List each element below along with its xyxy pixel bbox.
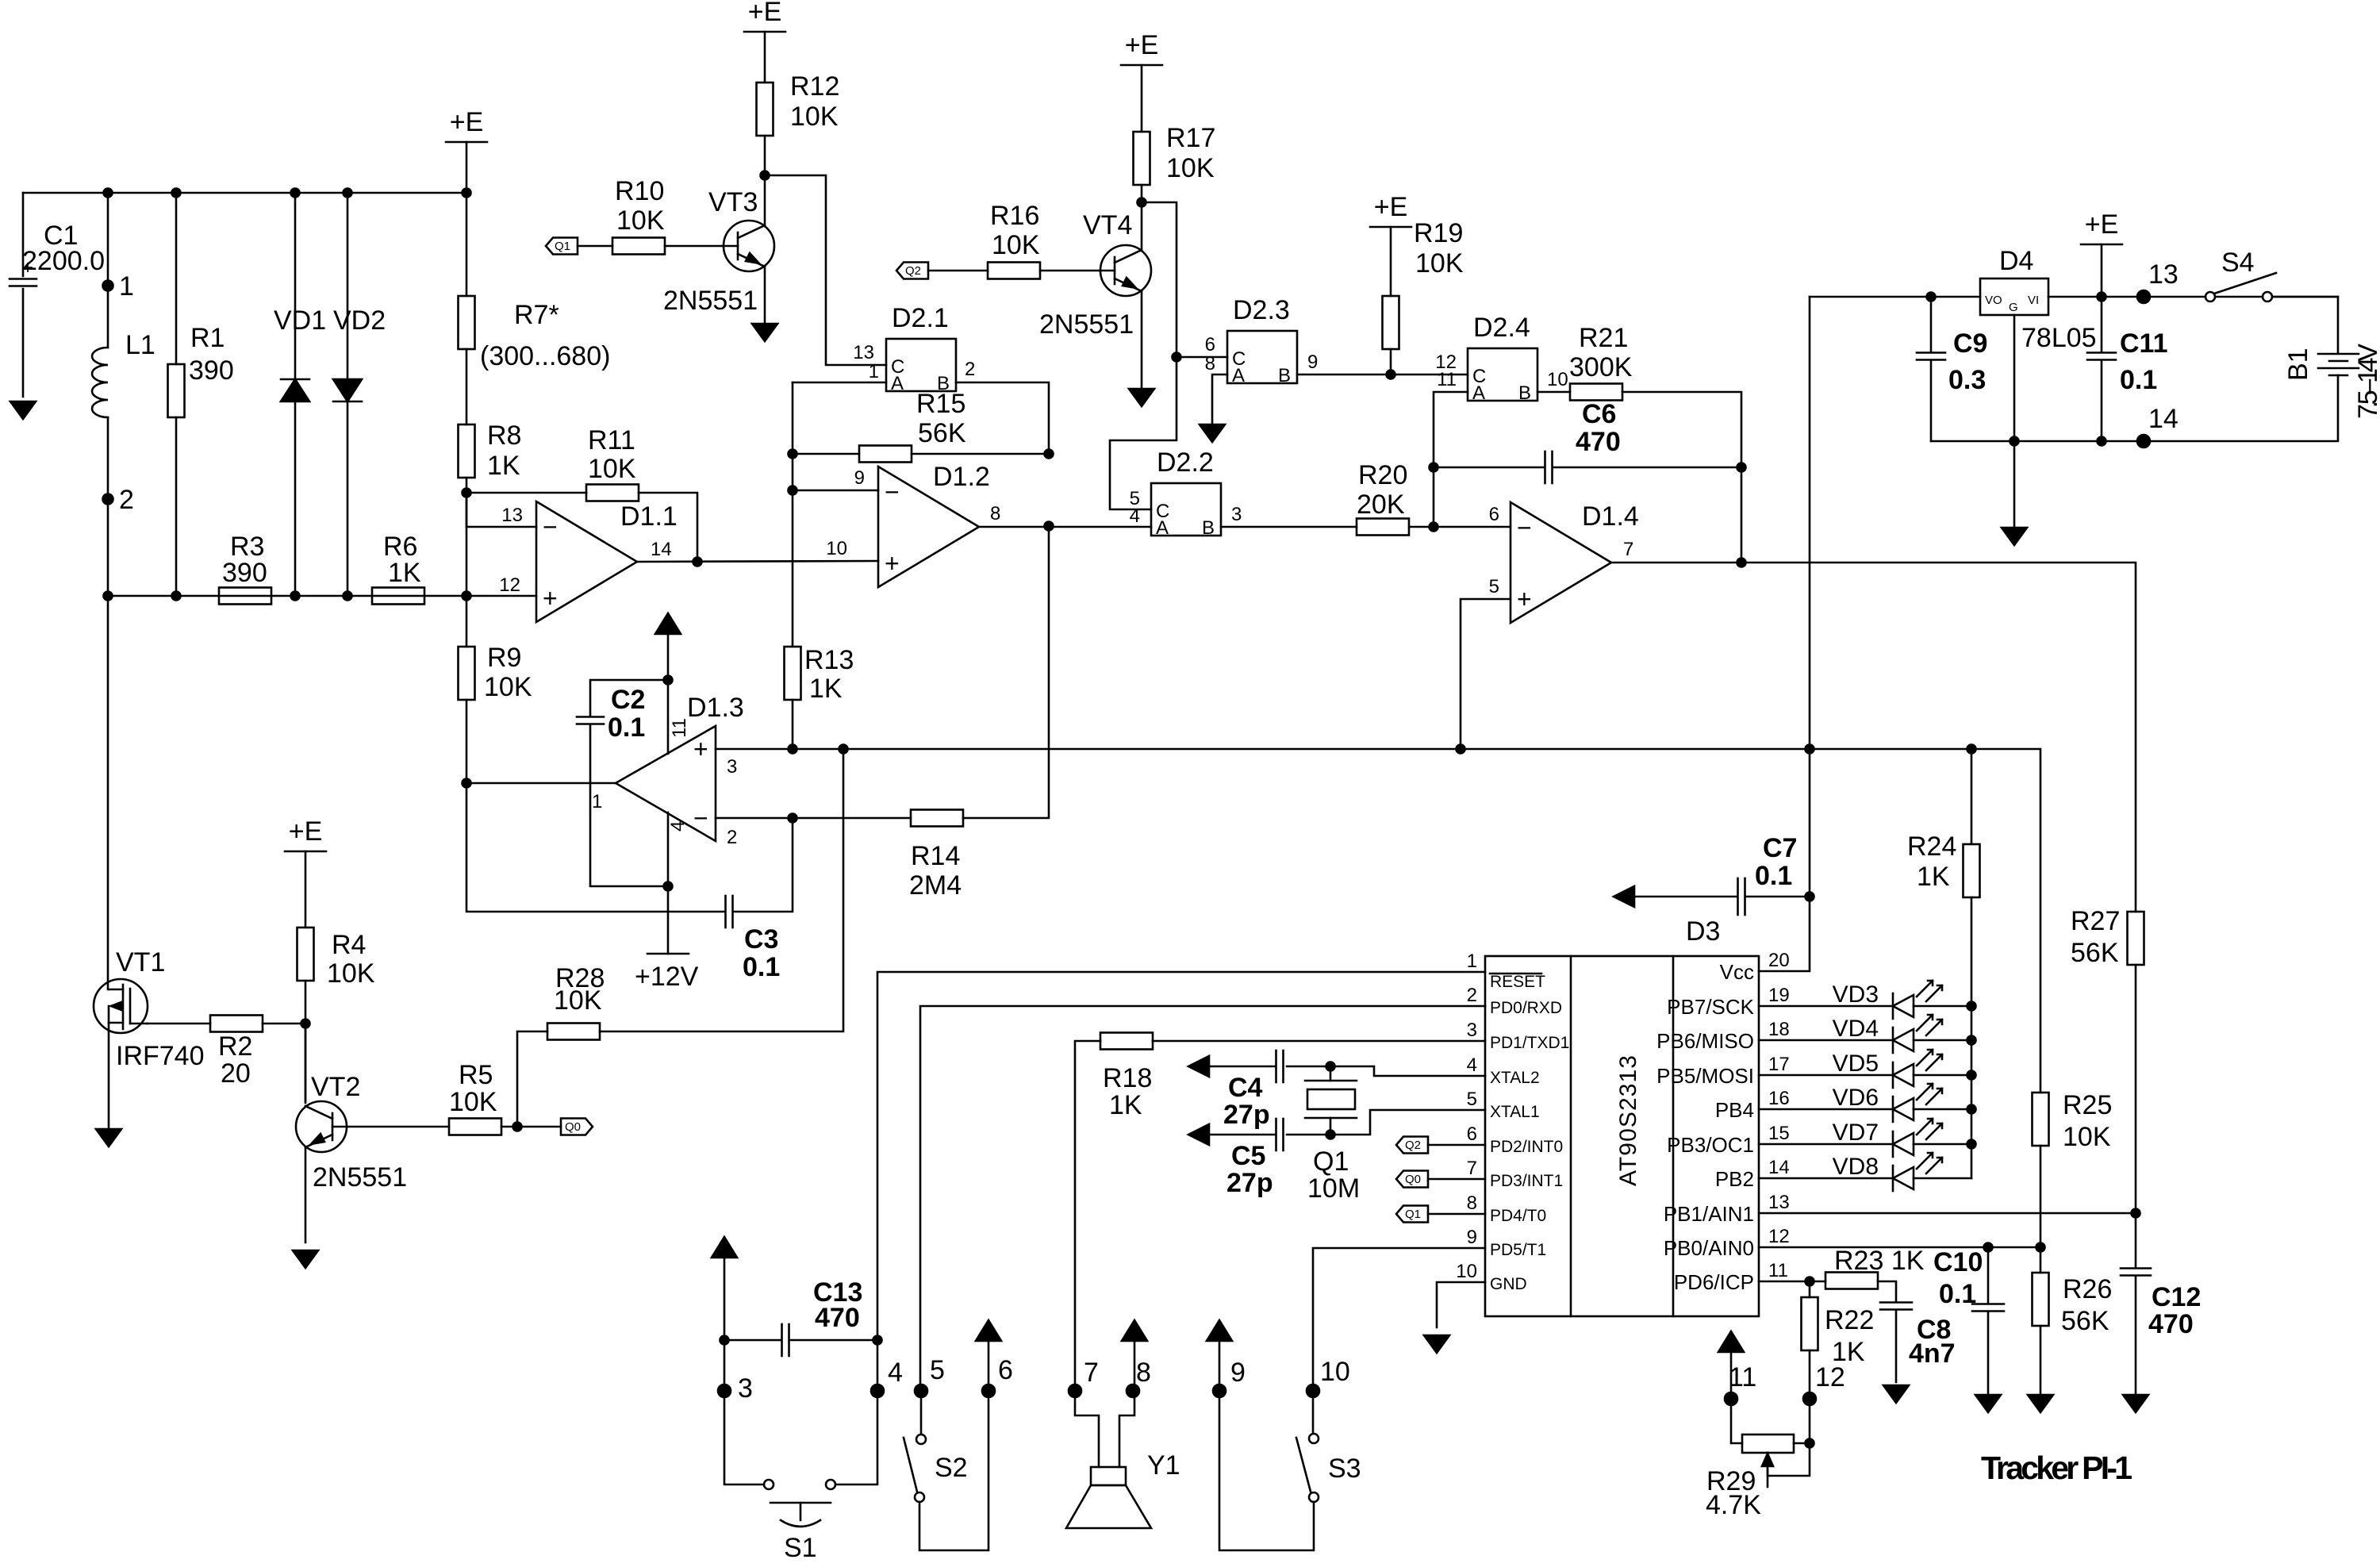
svg-text:Q1: Q1 bbox=[1405, 1208, 1421, 1221]
node VD4 bus junction bbox=[1967, 1036, 1976, 1045]
node R15 left junction bbox=[789, 450, 797, 459]
power arrow node 9 bbox=[1207, 1320, 1232, 1341]
power arrow node 11 bbox=[1718, 1331, 1744, 1352]
svg-text:16: 16 bbox=[1768, 1088, 1790, 1109]
svg-text:D2.1: D2.1 bbox=[892, 303, 949, 333]
svg-text:11: 11 bbox=[1437, 369, 1457, 390]
node R1 top junction bbox=[172, 189, 181, 198]
svg-text:VD1: VD1 bbox=[274, 305, 326, 336]
wire C13 left vertical bbox=[724, 1257, 764, 1484]
node VD7 bus junction bbox=[1967, 1140, 1976, 1149]
svg-text:2200.0: 2200.0 bbox=[22, 246, 105, 276]
svg-text:4: 4 bbox=[667, 821, 689, 832]
wire +E to R7 bbox=[466, 142, 468, 296]
node 1 terminal bbox=[103, 281, 113, 291]
resistor R3 bbox=[219, 588, 271, 605]
svg-text:R14: R14 bbox=[911, 841, 960, 871]
wire R1 bottom bbox=[175, 417, 178, 596]
wire Q1 tag wire bbox=[1428, 1213, 1485, 1216]
node R8 bottom junction bbox=[463, 489, 471, 497]
wire node11 arrow bbox=[1730, 1352, 1733, 1399]
resistor R16 bbox=[988, 263, 1040, 279]
capacitor C9 bbox=[1917, 353, 1945, 360]
LED VD3 bbox=[1893, 981, 1942, 1019]
svg-text:VD3: VD3 bbox=[1833, 981, 1879, 1008]
node R2 R4 junction bbox=[301, 1020, 310, 1028]
resistor R7 bbox=[459, 296, 475, 349]
svg-text:B: B bbox=[1518, 382, 1531, 404]
svg-text:5: 5 bbox=[930, 1355, 945, 1385]
node 10 terminal bbox=[1307, 1385, 1319, 1397]
svg-text:+: + bbox=[885, 549, 900, 578]
svg-text:Tracker PI-1: Tracker PI-1 bbox=[1981, 1450, 2132, 1486]
node pin11 junction bbox=[1806, 1277, 1814, 1286]
wire VD2 bottom bbox=[347, 401, 349, 596]
svg-text:PB3/OC1: PB3/OC1 bbox=[1667, 1133, 1754, 1157]
wire C4 to ground arrow bbox=[1209, 1066, 1276, 1068]
node +E rail junction bbox=[463, 189, 471, 198]
connector tag Q0 out bbox=[561, 1119, 593, 1135]
wire D1.2 output bbox=[979, 526, 1151, 528]
wire pin to VD4 bbox=[1759, 1039, 1893, 1042]
svg-text:13: 13 bbox=[2148, 259, 2178, 290]
wire R4 bottom bbox=[305, 981, 307, 1101]
ground below R26 bbox=[2028, 1395, 2053, 1412]
svg-text:13: 13 bbox=[1768, 1192, 1790, 1213]
wire pin4 vertical bbox=[667, 812, 670, 954]
wire pin to VD5 bbox=[1759, 1074, 1893, 1077]
wire +E drop bbox=[2101, 244, 2103, 297]
svg-text:13: 13 bbox=[853, 342, 874, 363]
wire D2.4 pin11 bbox=[1434, 392, 1468, 527]
svg-text:PB7/SCK: PB7/SCK bbox=[1667, 995, 1754, 1019]
svg-text:Q0: Q0 bbox=[1405, 1173, 1421, 1186]
node VD2 top junction bbox=[344, 189, 352, 198]
svg-text:R19: R19 bbox=[1414, 218, 1463, 248]
wire D2.2 output 3 bbox=[1221, 526, 1357, 528]
node +E D4 junction bbox=[2098, 293, 2106, 301]
svg-text:4n7: 4n7 bbox=[1909, 1338, 1956, 1369]
wire R15 right bbox=[912, 453, 1049, 455]
svg-text:B: B bbox=[937, 373, 950, 394]
capacitor C2 bbox=[577, 717, 604, 724]
capacitor C3 bbox=[726, 896, 733, 928]
resistor R20 bbox=[1357, 519, 1409, 536]
node VD3 bus junction bbox=[1967, 1002, 1976, 1011]
speaker Y1 bbox=[1066, 1467, 1151, 1528]
analog switch D2.3 bbox=[1227, 295, 1297, 386]
capacitor C4 bbox=[1276, 1050, 1284, 1082]
svg-text:VT2: VT2 bbox=[311, 1072, 360, 1102]
capacitor C10 bbox=[1972, 1304, 2004, 1312]
wire VT4 emitter bbox=[1141, 290, 1143, 389]
svg-text:Q2: Q2 bbox=[1405, 1139, 1421, 1152]
power arrow node 6 bbox=[976, 1320, 1001, 1341]
svg-text:R7*: R7* bbox=[514, 300, 559, 330]
svg-text:R11: R11 bbox=[588, 425, 635, 455]
wire R11 left bbox=[466, 492, 586, 494]
wire D1.1 output bbox=[637, 561, 878, 562]
wire +E to R17 bbox=[1141, 65, 1143, 132]
svg-text:14: 14 bbox=[2148, 404, 2178, 434]
svg-text:1K: 1K bbox=[1109, 1090, 1142, 1120]
IC D3 AT90S2313 bbox=[1485, 916, 1759, 1316]
resistor R1 bbox=[168, 364, 185, 417]
wire R7 to R8 bbox=[466, 349, 468, 424]
svg-text:12: 12 bbox=[499, 574, 520, 596]
LED VD5 bbox=[1893, 1050, 1942, 1088]
svg-text:R12: R12 bbox=[790, 71, 839, 102]
svg-text:0.1: 0.1 bbox=[1755, 861, 1792, 891]
svg-text:2M4: 2M4 bbox=[909, 870, 962, 901]
svg-text:5: 5 bbox=[1467, 1089, 1477, 1110]
svg-text:R8: R8 bbox=[487, 421, 521, 451]
inductor L1 bbox=[92, 348, 108, 417]
node rail R7 junction bbox=[463, 592, 471, 601]
node 6 terminal bbox=[982, 1385, 995, 1397]
svg-text:+12V: +12V bbox=[635, 962, 699, 992]
svg-text:A: A bbox=[1232, 365, 1245, 386]
wire pin to VD7 bbox=[1759, 1143, 1893, 1146]
node vref R24 junction bbox=[1967, 745, 1976, 754]
node C6 right junction bbox=[1737, 463, 1746, 472]
svg-text:XTAL2: XTAL2 bbox=[1490, 1069, 1540, 1087]
wire VD3 to bus bbox=[1914, 1005, 1971, 1008]
wire D2.1 A net bbox=[792, 382, 794, 647]
battery B1 bbox=[2318, 354, 2359, 375]
wire C3 to pin2 bbox=[733, 818, 793, 912]
node rail VD1 junction bbox=[291, 592, 300, 601]
svg-text:10K: 10K bbox=[484, 672, 532, 702]
svg-text:S3: S3 bbox=[1328, 1454, 1361, 1484]
resistor R25 bbox=[2033, 1093, 2049, 1146]
svg-text:VD8: VD8 bbox=[1833, 1154, 1879, 1180]
wire pin4 XTAL2 bbox=[1287, 1066, 1485, 1076]
svg-text:10K: 10K bbox=[588, 454, 636, 484]
svg-text:+E: +E bbox=[289, 816, 323, 847]
resistor R12 bbox=[757, 83, 773, 136]
node pin2 junction bbox=[789, 814, 797, 823]
svg-text:D1.4: D1.4 bbox=[1582, 501, 1639, 532]
svg-text:14: 14 bbox=[1768, 1157, 1790, 1178]
LED VD8 bbox=[1893, 1153, 1942, 1191]
wire top rail bbox=[23, 192, 466, 194]
node C10 junction bbox=[1984, 1243, 1993, 1252]
wire VD5 to bus bbox=[1914, 1074, 1971, 1077]
svg-text:7.5–14V: 7.5–14V bbox=[2353, 344, 2380, 419]
node 2 terminal bbox=[103, 494, 113, 505]
svg-text:9: 9 bbox=[1230, 1358, 1246, 1388]
wire R10 to VT3 base bbox=[665, 245, 724, 248]
svg-text:S2: S2 bbox=[935, 1453, 968, 1483]
svg-text:S1: S1 bbox=[784, 1533, 817, 1563]
crystal Q1 bbox=[1305, 1066, 1357, 1135]
svg-text:IRF740: IRF740 bbox=[116, 1041, 205, 1071]
svg-text:D2.2: D2.2 bbox=[1157, 447, 1214, 478]
svg-text:8: 8 bbox=[1205, 353, 1215, 374]
svg-text:7: 7 bbox=[1623, 539, 1633, 560]
wire VT1 drain bbox=[107, 596, 109, 989]
ground arrow C7 bbox=[1614, 886, 1634, 907]
node D1.1 output junction bbox=[693, 558, 702, 567]
svg-text:6: 6 bbox=[1467, 1123, 1477, 1145]
node 11 terminal bbox=[1725, 1392, 1737, 1405]
node vref R13 junction bbox=[789, 745, 797, 754]
resistor R22 bbox=[1802, 1297, 1818, 1350]
svg-text:+E: +E bbox=[748, 0, 782, 27]
svg-text:18: 18 bbox=[1768, 1019, 1790, 1040]
wire R22 to node12 bbox=[1809, 1350, 1811, 1399]
svg-text:VD4: VD4 bbox=[1833, 1016, 1879, 1042]
svg-text:12: 12 bbox=[1815, 1362, 1845, 1392]
wire VD6 to bus bbox=[1914, 1108, 1971, 1111]
wire node11 to pot bbox=[1731, 1399, 1742, 1443]
ground below C10 bbox=[1975, 1395, 2001, 1412]
wire S2 bottom bbox=[919, 1391, 988, 1550]
svg-text:4: 4 bbox=[1467, 1054, 1477, 1076]
wire vref net bbox=[716, 749, 2040, 1093]
svg-text:S4: S4 bbox=[2221, 248, 2255, 278]
node C7 junction bbox=[1806, 893, 1814, 901]
wire C10 to ground bbox=[1987, 1312, 1990, 1395]
capacitor C6 bbox=[1545, 451, 1553, 483]
svg-text:+: + bbox=[1517, 585, 1532, 613]
analog switch D2.2 bbox=[1151, 447, 1221, 539]
svg-text:D2.4: D2.4 bbox=[1473, 313, 1530, 343]
wire LED bus bbox=[1971, 1006, 1973, 1178]
wire C12 to ground bbox=[2135, 1276, 2137, 1395]
svg-text:1K: 1K bbox=[388, 558, 421, 588]
node 13 terminal bbox=[2137, 290, 2150, 303]
LED VD7 bbox=[1893, 1119, 1942, 1157]
ground below D3 bbox=[1424, 1335, 1449, 1353]
svg-text:0.3: 0.3 bbox=[1948, 365, 1986, 395]
svg-text:1K: 1K bbox=[809, 674, 843, 704]
wire D2.4 output 10 bbox=[1537, 391, 1570, 394]
node D2.3 C junction bbox=[1173, 353, 1181, 362]
wire pin11 vertical bbox=[667, 629, 670, 754]
svg-text:1K: 1K bbox=[487, 451, 520, 481]
wire R9 bottom bbox=[466, 700, 468, 783]
svg-text:10: 10 bbox=[1320, 1357, 1350, 1387]
wire VT1 gate to R2 bbox=[147, 1023, 210, 1025]
wire pin to VD6 bbox=[1759, 1108, 1893, 1111]
svg-text:4: 4 bbox=[888, 1358, 903, 1388]
svg-text:10K: 10K bbox=[992, 230, 1040, 260]
wire VT4 branch right bbox=[1110, 202, 1177, 509]
svg-text:R9: R9 bbox=[487, 643, 521, 673]
svg-text:300K: 300K bbox=[1569, 352, 1633, 382]
svg-text:RESET: RESET bbox=[1490, 973, 1545, 991]
node C9 junction bbox=[1927, 293, 1936, 301]
node C2 bottom junction bbox=[664, 882, 673, 891]
svg-text:390: 390 bbox=[189, 355, 234, 386]
svg-text:17: 17 bbox=[1768, 1054, 1790, 1075]
svg-text:Q0: Q0 bbox=[565, 1120, 581, 1134]
svg-text:1: 1 bbox=[1467, 951, 1477, 972]
wire VD8 to bus bbox=[1914, 1177, 1971, 1180]
wire pin3 PD1 right bbox=[1153, 1040, 1485, 1043]
svg-text:B: B bbox=[1202, 517, 1215, 539]
svg-text:R22: R22 bbox=[1825, 1305, 1874, 1335]
svg-text:470: 470 bbox=[2148, 1309, 2194, 1339]
connector tag Q2 top bbox=[896, 263, 928, 279]
svg-text:A: A bbox=[891, 373, 904, 394]
wire D4 ground pin bbox=[2013, 315, 2016, 528]
svg-text:VT3: VT3 bbox=[708, 187, 758, 217]
wire C8 to ground bbox=[1895, 1310, 1898, 1382]
wire D2.3 output 9 bbox=[1297, 374, 1468, 376]
wire D1.3 out to C3 branch bbox=[466, 783, 725, 912]
wire pin1 RESET bbox=[877, 972, 1485, 1340]
svg-text:0.1: 0.1 bbox=[1939, 1279, 1976, 1309]
capacitor C13 bbox=[782, 1324, 789, 1356]
node VD6 bus junction bbox=[1967, 1105, 1976, 1114]
svg-text:(300...680): (300...680) bbox=[480, 341, 610, 371]
wire S1 right vertical bbox=[835, 1340, 877, 1484]
capacitor C8 bbox=[1880, 1303, 1912, 1310]
svg-text:R23 1K: R23 1K bbox=[1834, 1246, 1925, 1276]
node R15 right junction bbox=[1045, 450, 1054, 459]
svg-text:56K: 56K bbox=[2071, 938, 2119, 968]
svg-text:7: 7 bbox=[1084, 1358, 1099, 1388]
node Q0 junction bbox=[513, 1123, 522, 1131]
wire D2.1 pin2 bbox=[956, 382, 1049, 454]
wire node8 to speaker bbox=[1119, 1391, 1134, 1467]
svg-text:L1: L1 bbox=[125, 330, 155, 360]
analog switch D2.1 bbox=[886, 303, 956, 394]
svg-text:R4: R4 bbox=[332, 930, 366, 960]
wire pin12 PB0 bbox=[1759, 1246, 2040, 1249]
wire C5 to ground arrow bbox=[1209, 1134, 1276, 1136]
analog switch D2.4 bbox=[1468, 313, 1537, 404]
svg-text:XTAL1: XTAL1 bbox=[1490, 1103, 1540, 1121]
wire VT2 base to R5 bbox=[347, 1126, 449, 1128]
resistor R11 bbox=[586, 485, 639, 501]
svg-text:PD1/TXD1: PD1/TXD1 bbox=[1490, 1034, 1569, 1052]
svg-text:6: 6 bbox=[1205, 334, 1215, 355]
transistor VT4 bbox=[1100, 245, 1151, 296]
svg-text:56K: 56K bbox=[918, 418, 966, 448]
wire D2.1 pin1 bbox=[793, 382, 886, 384]
node 3 terminal bbox=[718, 1385, 731, 1397]
switch S4 bbox=[2205, 273, 2276, 301]
switch S1 pushbutton bbox=[764, 1480, 835, 1527]
ground below VT3 bbox=[752, 324, 777, 341]
svg-text:+E: +E bbox=[1125, 30, 1159, 60]
svg-text:PD3/INT1: PD3/INT1 bbox=[1490, 1172, 1563, 1190]
svg-text:13: 13 bbox=[501, 505, 523, 526]
svg-text:VD7: VD7 bbox=[1833, 1120, 1879, 1146]
connector tag Q2 D3 bbox=[1396, 1137, 1428, 1154]
svg-text:19: 19 bbox=[1768, 985, 1790, 1006]
svg-text:C11: C11 bbox=[2120, 328, 2168, 359]
wire pin to VD3 bbox=[1759, 1005, 1893, 1008]
svg-text:2: 2 bbox=[1467, 985, 1477, 1006]
svg-text:D4: D4 bbox=[1999, 246, 2033, 276]
svg-text:R1: R1 bbox=[190, 323, 225, 353]
svg-text:C5: C5 bbox=[1231, 1141, 1265, 1171]
svg-text:Vcc: Vcc bbox=[1720, 960, 1754, 984]
svg-text:PD0/RXD: PD0/RXD bbox=[1490, 999, 1562, 1017]
power arrow C13 bbox=[712, 1237, 737, 1258]
svg-text:10K: 10K bbox=[2063, 1122, 2111, 1152]
wire C10 top bbox=[1987, 1247, 1990, 1304]
svg-text:+E: +E bbox=[2085, 209, 2119, 240]
svg-text:R24: R24 bbox=[1907, 832, 1956, 862]
wire R13 bottom bbox=[792, 700, 794, 749]
wire node9 arrow bbox=[1219, 1341, 1221, 1391]
wire R5 to Q0 bbox=[501, 1126, 561, 1128]
svg-text:+: + bbox=[693, 735, 708, 763]
svg-text:VI: VI bbox=[2028, 294, 2039, 307]
resistor R26 bbox=[2033, 1273, 2049, 1326]
node 12 terminal bbox=[1803, 1392, 1816, 1405]
resistor R27 bbox=[2128, 912, 2144, 965]
svg-text:Q2: Q2 bbox=[905, 264, 921, 278]
wire D1.3 output bbox=[466, 782, 616, 785]
wire R19 bottom bbox=[1390, 349, 1392, 374]
svg-text:27p: 27p bbox=[1223, 1100, 1270, 1130]
wire node7 to speaker bbox=[1075, 1391, 1099, 1467]
node 14 terminal bbox=[2137, 435, 2150, 447]
svg-text:C12: C12 bbox=[2152, 1282, 2201, 1312]
svg-text:R2: R2 bbox=[218, 1031, 252, 1062]
ground below D4 bbox=[2002, 528, 2027, 545]
resistor R17 bbox=[1134, 132, 1150, 185]
node rail L1 junction bbox=[104, 592, 113, 601]
svg-text:9: 9 bbox=[854, 467, 865, 489]
svg-text:20K: 20K bbox=[1357, 490, 1405, 520]
node VD1 top junction bbox=[291, 189, 300, 198]
svg-text:+E: +E bbox=[1374, 192, 1408, 222]
svg-text:PD6/ICP: PD6/ICP bbox=[1674, 1270, 1754, 1294]
ground below VT2 bbox=[293, 1250, 318, 1268]
wire Q0 tag wire bbox=[1428, 1178, 1485, 1181]
svg-text:VT1: VT1 bbox=[116, 947, 165, 977]
regulator D4 bbox=[1980, 246, 2048, 315]
wire VT1 source bbox=[108, 1023, 110, 1129]
wire node10 to S3 bbox=[1312, 1391, 1315, 1434]
svg-text:D1.1: D1.1 bbox=[620, 501, 678, 532]
svg-text:3: 3 bbox=[1231, 504, 1242, 525]
wire pin10 GND bbox=[1437, 1282, 1485, 1327]
wire VD4 to bus bbox=[1914, 1039, 1971, 1042]
node 7 terminal bbox=[1069, 1385, 1081, 1397]
node crystal top junction bbox=[1326, 1062, 1335, 1071]
svg-text:G: G bbox=[2009, 301, 2018, 314]
svg-text:VT4: VT4 bbox=[1083, 210, 1132, 240]
power +E above R17 bbox=[1121, 30, 1162, 65]
svg-text:470: 470 bbox=[1576, 427, 1621, 457]
svg-text:1: 1 bbox=[869, 361, 879, 382]
svg-text:C9: C9 bbox=[1953, 328, 1987, 359]
wire node6 arrow bbox=[988, 1341, 990, 1391]
capacitor C1 bbox=[10, 279, 36, 286]
svg-text:R18: R18 bbox=[1103, 1063, 1152, 1093]
svg-text:7: 7 bbox=[1467, 1158, 1477, 1179]
svg-text:10: 10 bbox=[1456, 1261, 1477, 1282]
svg-text:B1: B1 bbox=[2283, 348, 2313, 381]
svg-text:11: 11 bbox=[1768, 1260, 1788, 1281]
wire pot wiper bbox=[1768, 1443, 1810, 1476]
wire to C12 bbox=[2135, 1213, 2137, 1268]
svg-text:2: 2 bbox=[965, 359, 975, 380]
wire L1 bottom bbox=[107, 417, 109, 596]
wire R21 right bbox=[1622, 392, 1741, 563]
node pot junction bbox=[1806, 1439, 1814, 1448]
wire Q2 tag to R16 bbox=[928, 270, 988, 272]
